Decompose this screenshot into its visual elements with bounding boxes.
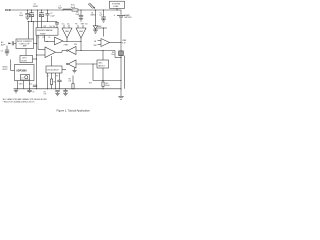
capacitor C3 series — [56, 22, 58, 23]
transistor Q2 — [41, 9, 42, 10]
op-amp T3 pwm — [55, 37, 64, 45]
svg-text:INPUT: INPUT — [3, 69, 8, 71]
box gate driver U2 — [36, 28, 58, 35]
svg-text:C10: C10 — [29, 84, 32, 86]
wire top rail — [12, 9, 121, 11]
svg-text:SELECT: SELECT — [98, 66, 106, 68]
svg-text:BST: BST — [44, 26, 47, 28]
svg-text:PUMP: PUMP — [40, 33, 46, 35]
wire pwm out — [63, 40, 81, 42]
svg-text:CT: CT — [21, 77, 23, 79]
capacitor C1 — [27, 9, 28, 10]
box timer — [21, 75, 30, 81]
svg-text:C9: C9 — [32, 92, 34, 94]
svg-text:SI4435: SI4435 — [33, 6, 38, 8]
svg-text:BAT54: BAT54 — [91, 14, 96, 17]
svg-text:R15: R15 — [89, 83, 92, 85]
node BAT sense — [115, 57, 121, 59]
wire system load stub — [116, 8, 118, 10]
svg-text:ILIM: ILIM — [74, 44, 78, 46]
battery BT1 — [117, 14, 125, 16]
wire cs return — [93, 80, 121, 82]
svg-text:ADP3806: ADP3806 — [16, 70, 27, 73]
svg-text:UVLO: UVLO — [22, 58, 27, 60]
svg-text:VBAT: VBAT — [122, 39, 126, 42]
wire line B — [76, 63, 97, 65]
ground stub bus left — [15, 89, 17, 91]
diode D1 — [95, 9, 96, 10]
wire kelvin sense — [123, 56, 125, 89]
svg-text:8.4V: 8.4V — [122, 42, 126, 44]
box cell select — [97, 60, 109, 68]
ground C4 — [79, 18, 83, 20]
svg-text:DH: DH — [50, 26, 52, 28]
box SYSTEM LOAD — [110, 1, 125, 8]
svg-text:R8: R8 — [69, 79, 71, 81]
op-amp A3 — [45, 47, 56, 58]
box input limit — [16, 39, 34, 49]
svg-text:C8: C8 — [44, 91, 46, 93]
svg-text:GND: GND — [19, 84, 23, 86]
ground C1 — [25, 16, 29, 18]
svg-text:1µF: 1µF — [99, 15, 102, 17]
svg-text:ADPT: ADPT — [1, 43, 6, 46]
resistor R13 — [102, 81, 104, 83]
svg-text:R14: R14 — [105, 83, 108, 85]
resistor R5 — [50, 79, 52, 85]
wire IC pins bottom — [17, 81, 19, 89]
svg-text:DRIVER/CHARGE: DRIVER/CHARGE — [37, 29, 53, 32]
svg-text:**INDUCTOR: SUMIDA CDRH127-150: **INDUCTOR: SUMIDA CDRH127-150 1% — [3, 101, 36, 104]
svg-text:OSCILLATOR: OSCILLATOR — [47, 69, 59, 72]
ground T6b bias — [74, 68, 76, 70]
wire driver to A3 input — [37, 35, 39, 49]
svg-text:CS-: CS- — [67, 24, 70, 26]
svg-text:PWM: PWM — [64, 45, 69, 47]
capacitor C12 below bus — [55, 90, 59, 92]
svg-text:C6: C6 — [1, 50, 3, 52]
svg-text:PG: PG — [43, 37, 46, 39]
svg-text:DCIN: DCIN — [5, 8, 11, 12]
wire osc pins — [47, 73, 49, 89]
svg-text:GM1: GM1 — [65, 31, 69, 33]
wire select down — [25, 49, 27, 56]
svg-text:CT: CT — [47, 76, 49, 78]
wire driver to T3 input — [44, 35, 46, 41]
svg-text:10µF: 10µF — [19, 15, 24, 17]
svg-text:+: + — [114, 14, 116, 17]
wire right rail lower — [120, 18, 122, 96]
capacitor C5 top — [103, 9, 104, 10]
svg-text:REF: REF — [94, 45, 97, 47]
op-amp A5 — [101, 39, 110, 47]
svg-text:CELL: CELL — [98, 62, 103, 64]
wire gate bus — [28, 21, 58, 23]
svg-text:VREF: VREF — [98, 26, 102, 28]
arrow input — [8, 43, 11, 45]
bottom bus — [14, 88, 122, 90]
wire bus to input limit box — [28, 22, 30, 40]
svg-text:22µF: 22µF — [76, 14, 80, 16]
node VOUT arrow — [90, 3, 96, 9]
op-amp T6a buffer — [68, 47, 76, 55]
svg-text:15µH: 15µH — [58, 8, 63, 10]
wire ref node — [98, 27, 108, 29]
wire bus x81 — [80, 41, 82, 50]
svg-text:SMART: SMART — [125, 14, 131, 17]
op-amp T6b buffer — [68, 60, 76, 68]
box oscillator — [46, 66, 62, 73]
capacitor series input — [11, 41, 13, 45]
capacitor C11 — [57, 79, 61, 81]
svg-text:20m: 20m — [111, 54, 115, 56]
capacitor C13 below bus — [63, 90, 67, 92]
wire x36 vertical — [36, 35, 38, 89]
svg-text:68mΩ: 68mΩ — [105, 85, 110, 87]
wire line A — [76, 50, 115, 52]
svg-text:RS: RS — [112, 52, 114, 54]
svg-text:30mΩ: 30mΩ — [71, 7, 76, 9]
resistor RSNS on rail — [119, 51, 124, 56]
svg-text:RT: RT — [56, 76, 58, 78]
svg-text:10k: 10k — [69, 81, 72, 83]
svg-text:SD: SD — [85, 24, 88, 26]
svg-text:LOAD: LOAD — [113, 5, 119, 8]
capacitor C9 below bus left — [29, 89, 31, 90]
capacitor C4 — [80, 9, 81, 10]
wire fb drop — [92, 64, 94, 81]
wire right out of input limit — [34, 43, 37, 45]
svg-text:FB: FB — [75, 24, 77, 26]
svg-text:CNTRL: CNTRL — [21, 61, 27, 63]
IC U1 ADP3806 — [15, 65, 35, 81]
ground C6 left — [5, 52, 9, 54]
box UVLO — [20, 56, 33, 63]
svg-text:R5: R5 — [54, 82, 56, 84]
ground C5 top — [101, 19, 105, 21]
capacitor C6 left — [6, 46, 8, 50]
svg-text:1nF: 1nF — [44, 94, 47, 96]
svg-text:FB: FB — [94, 41, 96, 43]
svg-text:REF: REF — [81, 24, 84, 26]
svg-text:VL: VL — [49, 37, 51, 39]
wire right rail top — [120, 10, 122, 15]
svg-text:Figure 1. Typical Application: Figure 1. Typical Application — [57, 109, 91, 113]
ground right rail — [118, 95, 124, 97]
capacitor C7 drop — [47, 9, 48, 10]
svg-text:0.1µF: 0.1µF — [50, 15, 54, 17]
svg-text:GM2: GM2 — [79, 31, 83, 33]
svg-text:*ALL CAPACITORS ARE CERAMIC X7: *ALL CAPACITORS ARE CERAMIC X7R UNLESS N… — [3, 98, 48, 101]
